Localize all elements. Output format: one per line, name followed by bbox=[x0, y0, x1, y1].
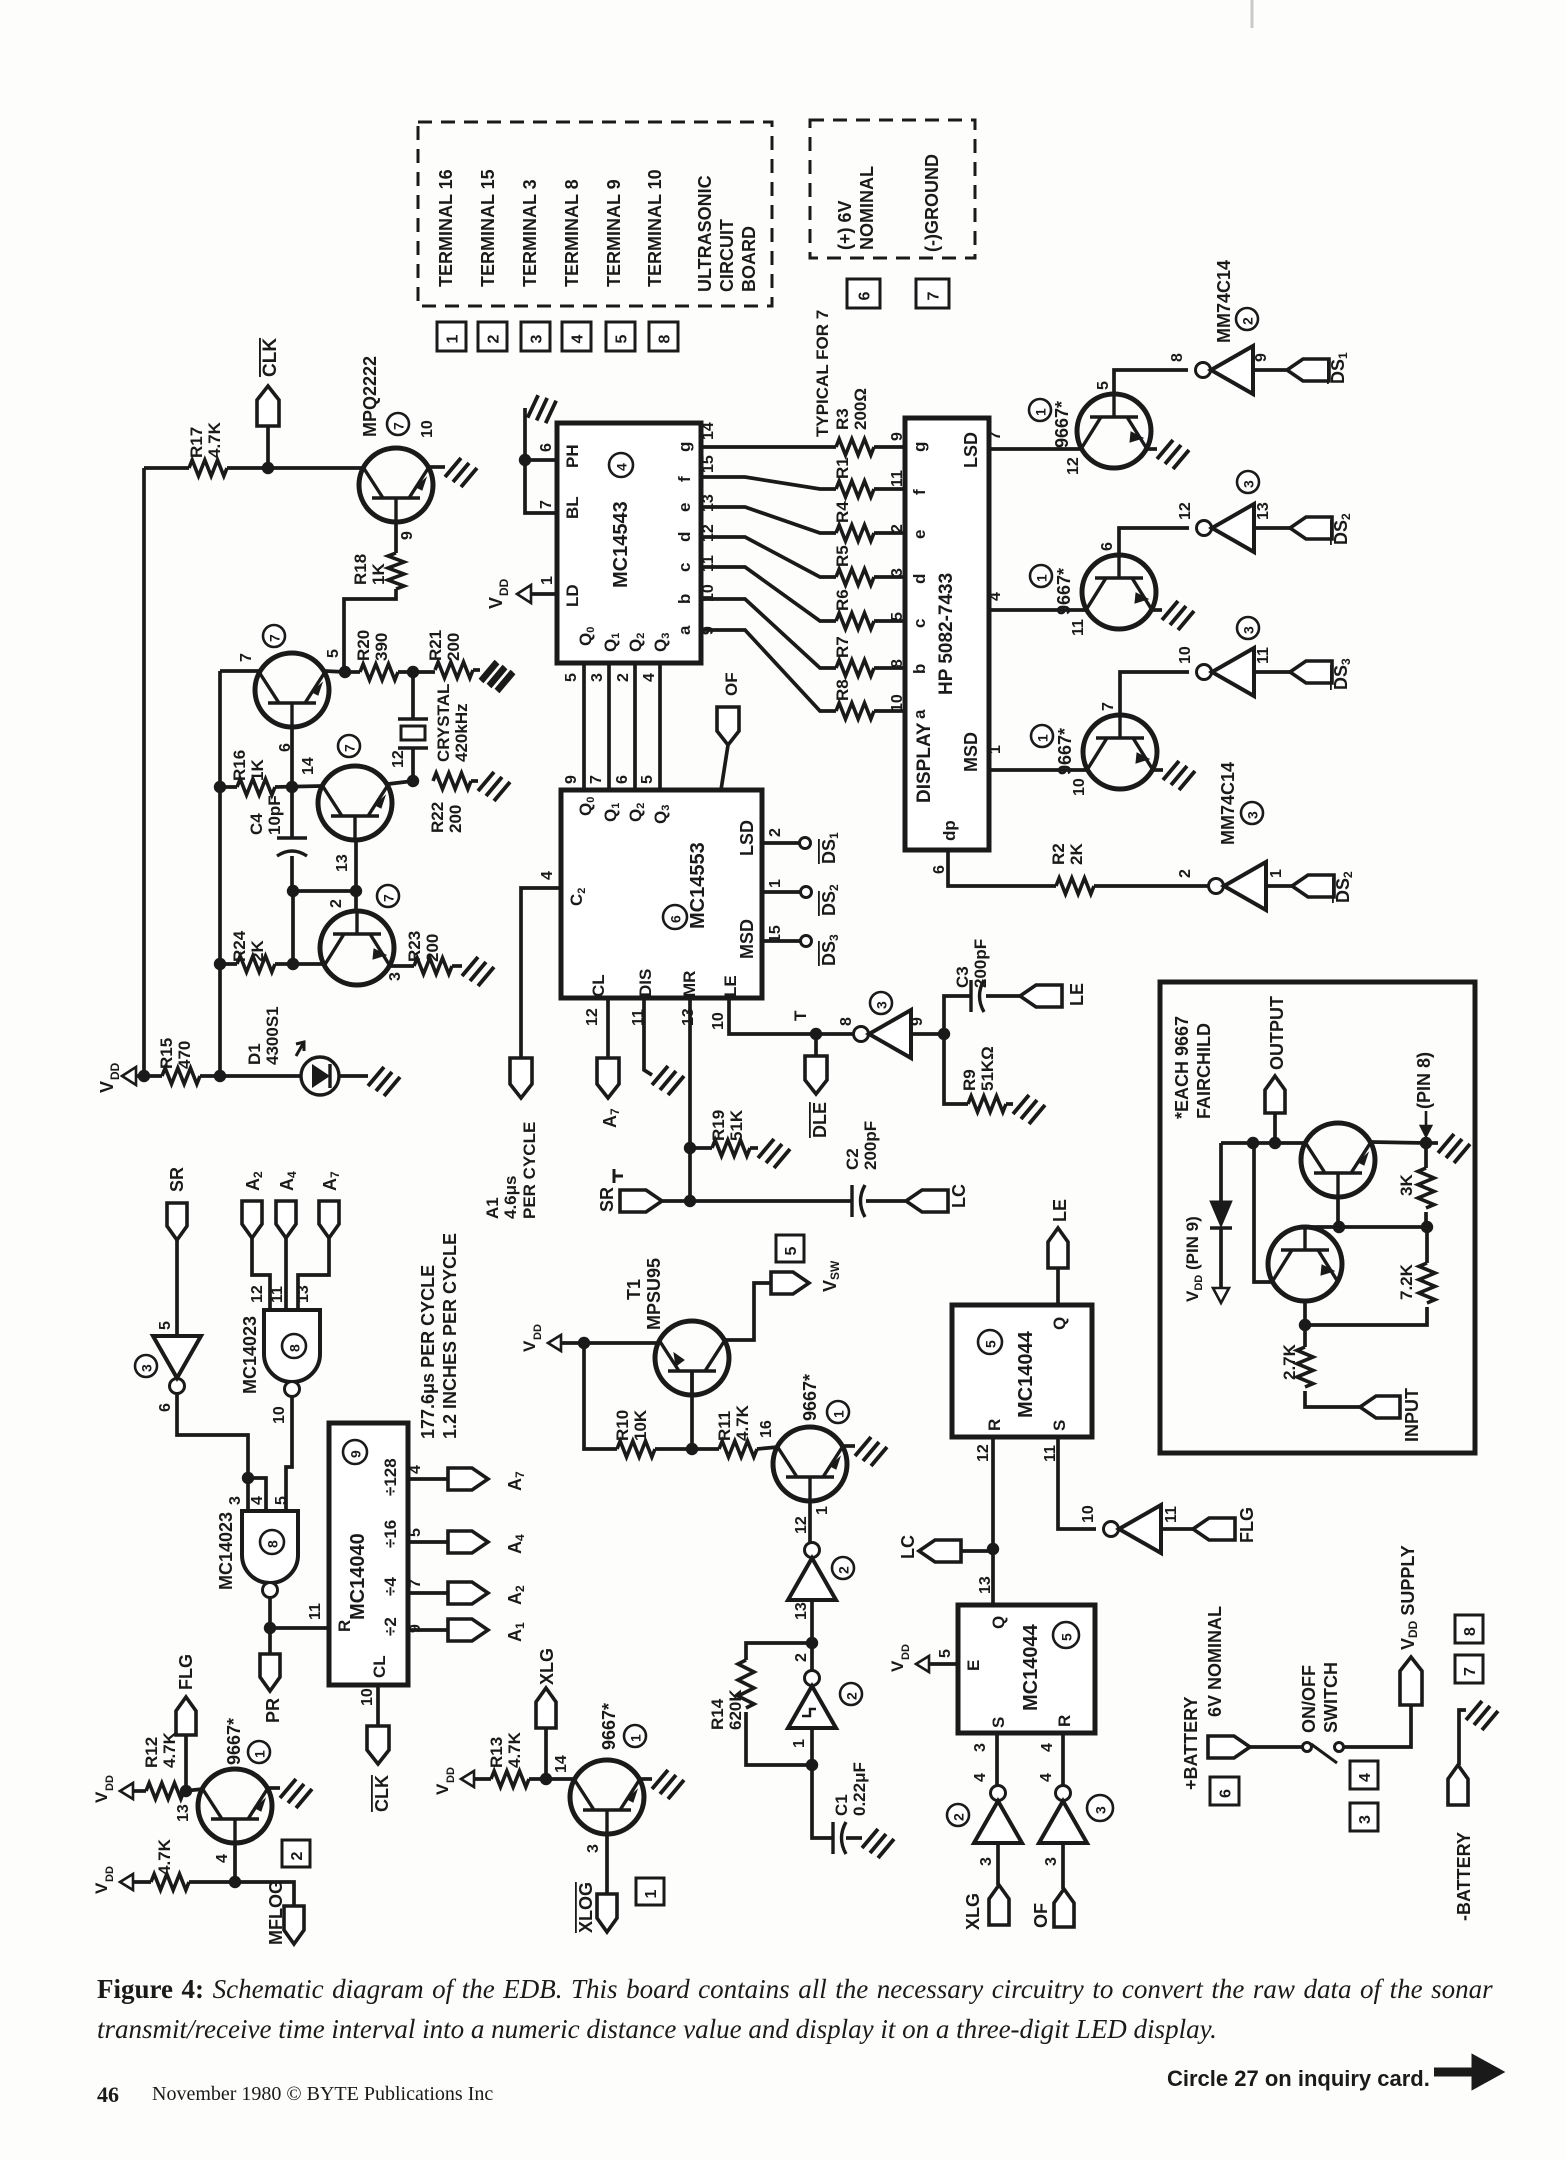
wire MSD4 to Q6 bbox=[989, 608, 1086, 612]
terminal square 4 bbox=[562, 322, 591, 351]
connector +BATTERY bbox=[1208, 1736, 1250, 1758]
svg-text:9667*: 9667* bbox=[1054, 568, 1074, 615]
terminal square 5 bbox=[606, 322, 635, 351]
wire Q9 emitter bbox=[605, 1834, 609, 1894]
inset box 9667 detail bbox=[1160, 982, 1475, 1453]
wire inv to DS2 bbox=[1254, 526, 1290, 530]
svg-text:5: 5 bbox=[889, 612, 906, 621]
terminal square 3 bbox=[521, 322, 550, 351]
svg-text:MM74C14: MM74C14 bbox=[1218, 762, 1238, 845]
svg-text:NOMINAL: NOMINAL bbox=[857, 166, 877, 250]
resistor R16 1K bbox=[237, 779, 275, 795]
svg-text:a: a bbox=[910, 709, 929, 719]
svg-text:11: 11 bbox=[269, 1286, 286, 1303]
wire PH BL loop bbox=[525, 458, 557, 462]
wire R23 to ground bbox=[452, 964, 462, 968]
svg-text:3K: 3K bbox=[1397, 1174, 1416, 1196]
svg-text:5: 5 bbox=[614, 335, 631, 344]
svg-text:LC: LC bbox=[949, 1184, 969, 1208]
svg-text:3: 3 bbox=[529, 335, 546, 344]
svg-text:C1: C1 bbox=[832, 1794, 851, 1816]
svg-text:HP 5082-7433: HP 5082-7433 bbox=[936, 573, 957, 695]
wire Q8 collector ground bbox=[268, 1786, 280, 1790]
svg-text:DD: DD bbox=[104, 1866, 116, 1882]
wire C2 to LC bbox=[866, 1199, 906, 1203]
svg-text:6: 6 bbox=[538, 443, 555, 452]
svg-text:12: 12 bbox=[584, 1008, 601, 1026]
wire inv to FLG bbox=[1161, 1527, 1193, 1531]
transistor inset upper bbox=[1301, 1123, 1375, 1197]
resistor R23 200 bbox=[414, 958, 452, 974]
designator 2 invXLG bbox=[947, 1804, 969, 1826]
svg-text:8: 8 bbox=[838, 1017, 855, 1026]
svg-text:8: 8 bbox=[265, 1540, 281, 1548]
wire pin8 ground bbox=[1426, 1141, 1438, 1145]
svg-text:2: 2 bbox=[793, 1653, 810, 1662]
designator 2 invA bbox=[832, 1557, 854, 1579]
node inset output bbox=[1269, 1137, 1281, 1149]
svg-text:CRYSTAL: CRYSTAL bbox=[434, 684, 453, 762]
svg-text:1: 1 bbox=[539, 576, 556, 585]
terminal square 7 bbox=[1455, 1655, 1483, 1683]
wire FLG down bbox=[184, 1735, 188, 1791]
resistor R9 51K bbox=[968, 1096, 1006, 1112]
svg-text:470: 470 bbox=[175, 1041, 194, 1069]
svg-text:C4: C4 bbox=[247, 813, 266, 835]
wire inset mid rail bbox=[1305, 1225, 1427, 1229]
svg-text:R18: R18 bbox=[351, 554, 370, 585]
transistor Q5 9667 bbox=[1077, 394, 1151, 468]
connector INPUT bbox=[1360, 1396, 1400, 1418]
svg-text:e: e bbox=[675, 503, 694, 512]
svg-text:14: 14 bbox=[700, 422, 717, 440]
svg-text:A2: A2 bbox=[505, 1585, 527, 1605]
connector VDD SUPPLY bbox=[1400, 1657, 1422, 1705]
svg-text:13: 13 bbox=[793, 1602, 810, 1620]
inverter U3 SR bbox=[170, 1379, 185, 1394]
node rail R16 bbox=[214, 781, 226, 793]
svg-text:13: 13 bbox=[334, 854, 351, 872]
svg-text:12: 12 bbox=[975, 1444, 992, 1462]
wire gate1 out bbox=[286, 1397, 292, 1511]
ground inset bbox=[1438, 1134, 1470, 1163]
svg-text:7: 7 bbox=[926, 292, 943, 301]
wire R9 ground bbox=[1006, 1102, 1013, 1106]
svg-text:R4: R4 bbox=[833, 501, 852, 523]
svg-text:FLG: FLG bbox=[176, 1654, 196, 1690]
transistor Q10 9667 bbox=[773, 1427, 847, 1501]
svg-text:1: 1 bbox=[1034, 574, 1050, 582]
svg-text:4.7K: 4.7K bbox=[733, 1404, 752, 1441]
svg-text:b: b bbox=[675, 594, 694, 604]
svg-text:10: 10 bbox=[419, 420, 436, 438]
svg-text:12: 12 bbox=[1065, 457, 1082, 475]
svg-text:9: 9 bbox=[348, 1450, 364, 1458]
svg-text:MC14543: MC14543 bbox=[610, 501, 632, 588]
svg-text:DS1: DS1 bbox=[819, 832, 841, 864]
svg-text:DD: DD bbox=[497, 578, 511, 596]
svg-text:1: 1 bbox=[252, 1750, 268, 1758]
wire/resistor R3 segment g bbox=[701, 445, 836, 449]
svg-text:12: 12 bbox=[390, 750, 407, 768]
svg-text:6: 6 bbox=[668, 915, 684, 923]
svg-text:7: 7 bbox=[407, 1579, 424, 1588]
terminal square 4 bbox=[1350, 1761, 1378, 1789]
svg-text:÷2: ÷2 bbox=[381, 1617, 400, 1636]
svg-text:ULTRASONIC: ULTRASONIC bbox=[695, 175, 715, 292]
svg-text:c: c bbox=[675, 563, 694, 572]
wire LE down bbox=[729, 998, 816, 1034]
svg-text:10: 10 bbox=[1071, 778, 1088, 796]
ground R9 bbox=[1013, 1095, 1045, 1124]
svg-text:A7: A7 bbox=[505, 1471, 527, 1491]
terminal square 8 bbox=[649, 322, 678, 351]
svg-text:(-)GROUND: (-)GROUND bbox=[922, 154, 942, 252]
wire CL to A7 bbox=[606, 998, 610, 1058]
svg-text:TERMINAL 8: TERMINAL 8 bbox=[562, 179, 582, 287]
svg-text:7: 7 bbox=[342, 744, 358, 752]
ground R23 bbox=[462, 957, 494, 986]
wire Q4 emitter to R23 bbox=[390, 964, 414, 968]
svg-text:13: 13 bbox=[1255, 502, 1272, 520]
connector -BATTERY bbox=[1448, 1765, 1468, 1805]
svg-text:9667*: 9667* bbox=[1052, 401, 1072, 448]
wire VDD to E bbox=[929, 1662, 958, 1666]
svg-text:2: 2 bbox=[844, 1692, 860, 1700]
wire R10 to node bbox=[655, 1447, 719, 1451]
svg-text:6: 6 bbox=[857, 292, 874, 301]
svg-text:S: S bbox=[1050, 1420, 1069, 1431]
svg-text:LE: LE bbox=[721, 975, 740, 997]
resistor R14 620K bbox=[738, 1660, 754, 1708]
svg-text:C3: C3 bbox=[953, 966, 972, 988]
svg-text:2: 2 bbox=[767, 828, 784, 837]
label bar T bbox=[614, 1169, 623, 1183]
wire rail to Q2 base bbox=[220, 669, 259, 673]
svg-text:R3: R3 bbox=[833, 408, 852, 430]
svg-text:4: 4 bbox=[972, 1773, 989, 1782]
svg-text:11: 11 bbox=[1163, 1506, 1180, 1523]
wire base rail down bbox=[584, 1343, 617, 1449]
wire C1 ground bbox=[846, 1836, 862, 1840]
svg-text:XLG: XLG bbox=[537, 1648, 557, 1685]
svg-text:16: 16 bbox=[758, 1420, 775, 1438]
wire DS3 stub bbox=[762, 939, 800, 943]
svg-text:1: 1 bbox=[987, 745, 1004, 754]
svg-text:2: 2 bbox=[951, 1813, 967, 1821]
svg-text:R7: R7 bbox=[833, 636, 852, 658]
designator 4 bbox=[609, 453, 633, 477]
IC U4 MC14543 bbox=[557, 423, 701, 663]
svg-text:CL: CL bbox=[589, 974, 608, 997]
wire R12 to Q8 bbox=[184, 1789, 203, 1791]
svg-text:V: V bbox=[888, 1660, 907, 1672]
svg-text:DD: DD bbox=[900, 1644, 912, 1660]
svg-text:4: 4 bbox=[1039, 1743, 1056, 1752]
svg-text:9: 9 bbox=[889, 432, 906, 441]
designator 1 Q6 bbox=[1030, 565, 1052, 587]
wire R2 to inv bbox=[1094, 884, 1208, 888]
svg-text:1: 1 bbox=[445, 335, 462, 344]
wire node to Q3 collector bbox=[388, 781, 413, 784]
svg-text:DS3: DS3 bbox=[819, 934, 841, 966]
wire 7.2K to emitter row bbox=[1305, 1307, 1427, 1325]
svg-text:12: 12 bbox=[249, 1285, 266, 1303]
ground R22 bbox=[478, 772, 510, 801]
terminal square 2 bbox=[478, 322, 507, 351]
wire LE down to Q bbox=[1056, 1268, 1060, 1305]
svg-text:VSW: VSW bbox=[820, 1260, 842, 1292]
wire D1 to ground bbox=[339, 1074, 368, 1078]
svg-text:200: 200 bbox=[446, 805, 465, 833]
wire inv to gate2 bbox=[177, 1394, 248, 1511]
svg-text:V: V bbox=[486, 597, 506, 609]
diode D1 4300S1 bbox=[301, 1057, 339, 1095]
designator 8 lower bbox=[260, 1530, 284, 1554]
svg-text:5: 5 bbox=[563, 673, 580, 682]
svg-text:ON/OFF: ON/OFF bbox=[1299, 1665, 1319, 1733]
wire Q2 collector to R20 bbox=[325, 671, 345, 672]
svg-text:TERMINAL 3: TERMINAL 3 bbox=[520, 179, 540, 287]
inverter U2 XLG bbox=[991, 1786, 1006, 1801]
wire R11 to Q10 bbox=[757, 1447, 778, 1449]
svg-text:4: 4 bbox=[570, 335, 587, 344]
svg-text:MC14023: MC14023 bbox=[240, 1316, 260, 1394]
capacitor C3 200pF bbox=[969, 980, 972, 1012]
svg-text:V: V bbox=[92, 1791, 111, 1803]
svg-text:DS2: DS2 bbox=[1333, 871, 1355, 903]
svg-text:6: 6 bbox=[931, 865, 948, 874]
svg-text:DD: DD bbox=[532, 1324, 544, 1340]
resistor R24 2K bbox=[237, 956, 275, 972]
svg-text:1: 1 bbox=[1033, 408, 1049, 416]
capacitor C4 10pF bbox=[290, 787, 294, 838]
wire Q6 emitter ground bbox=[1152, 608, 1162, 612]
wire gate2 in2 bbox=[248, 1478, 266, 1511]
svg-text:11: 11 bbox=[1070, 619, 1087, 636]
wire R19 link bbox=[690, 1146, 712, 1150]
svg-text:1: 1 bbox=[1268, 869, 1285, 878]
svg-text:R23: R23 bbox=[405, 931, 424, 962]
diode inset bbox=[1219, 1143, 1223, 1201]
svg-text:2K: 2K bbox=[1067, 843, 1086, 865]
wire to R24 node bbox=[291, 891, 295, 964]
svg-text:MPSU95: MPSU95 bbox=[644, 1258, 664, 1330]
svg-text:2: 2 bbox=[328, 899, 345, 908]
designator 1 Q10 bbox=[827, 1401, 849, 1423]
svg-text:LSD: LSD bbox=[961, 432, 981, 468]
svg-text:D1: D1 bbox=[245, 1043, 264, 1065]
svg-text:transmit/receive time interval: transmit/receive time interval into a nu… bbox=[97, 2014, 1217, 2044]
wire/resistor R4 segment e bbox=[701, 507, 836, 533]
wire MSD1 to Q7 bbox=[989, 768, 1087, 772]
wire R20 to R21 bbox=[344, 670, 360, 674]
wire inset upper emitter bbox=[1336, 1197, 1340, 1227]
svg-text:13: 13 bbox=[175, 1804, 192, 1822]
svg-text:MFLOG: MFLOG bbox=[266, 1880, 286, 1945]
node Q2 collector bbox=[339, 666, 351, 678]
inverter U3 DS3 bbox=[1197, 665, 1212, 680]
svg-text:DISPLAY: DISPLAY bbox=[914, 722, 935, 803]
wire MR down bbox=[688, 998, 692, 1201]
ground Q1 bbox=[445, 458, 477, 487]
wire Q4 base stem bbox=[354, 891, 358, 911]
svg-text:TERMINAL 16: TERMINAL 16 bbox=[436, 169, 456, 287]
svg-text:200: 200 bbox=[423, 934, 442, 962]
svg-text:MPQ2222: MPQ2222 bbox=[360, 356, 380, 437]
connector DS2 bbox=[1290, 517, 1332, 539]
svg-text:Q: Q bbox=[989, 1616, 1008, 1629]
svg-text:÷4: ÷4 bbox=[381, 1577, 400, 1596]
connector DS3 bbox=[1290, 661, 1332, 683]
ground Q7 bbox=[1163, 761, 1195, 790]
svg-text:6V NOMINAL: 6V NOMINAL bbox=[1205, 1606, 1225, 1717]
svg-text:5: 5 bbox=[783, 1247, 800, 1256]
wire node to crystal bbox=[411, 672, 415, 719]
svg-text:5: 5 bbox=[157, 1321, 174, 1330]
power dashed box bbox=[810, 120, 975, 258]
wire/resistor R8 segment a bbox=[701, 630, 836, 711]
svg-text:MC14023: MC14023 bbox=[216, 1512, 236, 1590]
wire crystal to R22 node bbox=[411, 748, 415, 781]
node R22 bbox=[407, 775, 419, 787]
terminal square 5 VSW bbox=[776, 1235, 804, 1262]
wire rail to R24 bbox=[220, 962, 237, 966]
IC U6 MC14553 bbox=[561, 790, 762, 998]
svg-text:51K: 51K bbox=[727, 1109, 746, 1141]
wire inset lower collector bbox=[1303, 1225, 1307, 1229]
node rail R24 bbox=[214, 958, 226, 970]
transistor T1 MPSU95 bbox=[655, 1321, 729, 1395]
node MR R19 bbox=[684, 1142, 696, 1154]
svg-text:8: 8 bbox=[889, 659, 906, 668]
wire VDD to R15 bbox=[136, 1074, 162, 1078]
wire inv to OF bbox=[1061, 1843, 1065, 1889]
svg-text:12: 12 bbox=[793, 1516, 810, 1534]
svg-text:9: 9 bbox=[1253, 353, 1270, 362]
svg-text:MR: MR bbox=[680, 971, 699, 997]
svg-text:V: V bbox=[433, 1783, 452, 1795]
IC U9 MC14040 bbox=[329, 1423, 408, 1685]
wire R to inv OF bbox=[1061, 1733, 1065, 1785]
connector DS1 bbox=[1287, 359, 1329, 381]
designator 1 Q5 bbox=[1029, 399, 1051, 421]
svg-text:9: 9 bbox=[909, 1017, 926, 1026]
resistor R17 4.7K bbox=[144, 466, 189, 470]
transistor Q6 9667 bbox=[1082, 555, 1156, 629]
svg-text:7: 7 bbox=[1462, 1667, 1479, 1676]
wire rail to R16 bbox=[220, 785, 237, 789]
svg-text:FAIRCHILD: FAIRCHILD bbox=[1194, 1023, 1214, 1119]
svg-text:b: b bbox=[910, 664, 929, 674]
svg-text:3: 3 bbox=[889, 568, 906, 577]
node T1 emitter R10 bbox=[686, 1443, 698, 1455]
svg-text:4: 4 bbox=[641, 673, 658, 682]
svg-text:3: 3 bbox=[1241, 480, 1257, 488]
wire lower emitter down bbox=[1303, 1301, 1307, 1347]
svg-text:R16: R16 bbox=[230, 750, 249, 781]
svg-text:11: 11 bbox=[307, 1603, 324, 1620]
svg-text:4.7K: 4.7K bbox=[205, 421, 224, 458]
wire R22 to ground bbox=[471, 779, 478, 783]
svg-text:6: 6 bbox=[157, 1403, 174, 1412]
wire SR down bbox=[175, 1240, 179, 1337]
svg-text:3: 3 bbox=[1357, 1815, 1374, 1824]
svg-text:10: 10 bbox=[710, 1012, 727, 1030]
svg-text:3: 3 bbox=[1043, 1857, 1060, 1866]
svg-text:1: 1 bbox=[1035, 734, 1051, 742]
inverter U3 DS2 bbox=[1197, 521, 1212, 536]
svg-text:10: 10 bbox=[889, 694, 906, 712]
node R24 bbox=[287, 958, 299, 970]
wire to ground up bbox=[523, 408, 527, 460]
resistor R11 4.7K bbox=[719, 1441, 757, 1457]
IC U5 MC14044 upper bbox=[952, 1305, 1092, 1437]
wire S to inv XLG bbox=[995, 1733, 999, 1785]
node Q2 emitter R16 bbox=[286, 781, 298, 793]
svg-text:8: 8 bbox=[1169, 353, 1186, 362]
svg-text:Q: Q bbox=[1050, 1317, 1069, 1330]
connector A1 cycle bbox=[510, 1058, 532, 1098]
designator 3 SR inv bbox=[135, 1355, 157, 1377]
connector XLOG bbox=[597, 1894, 617, 1932]
svg-text:10: 10 bbox=[271, 1406, 288, 1424]
svg-text:DS3: DS3 bbox=[1331, 658, 1353, 690]
ground Q5 bbox=[1157, 440, 1189, 469]
designator 2 invB bbox=[840, 1683, 862, 1705]
svg-text:R19: R19 bbox=[709, 1110, 728, 1141]
svg-text:(PIN 8): (PIN 8) bbox=[1414, 1052, 1434, 1109]
svg-text:R1: R1 bbox=[833, 457, 852, 479]
svg-text:5: 5 bbox=[937, 1649, 954, 1658]
svg-text:11: 11 bbox=[889, 470, 906, 487]
node LC bbox=[987, 1543, 999, 1555]
connector LC row bbox=[906, 1190, 948, 1212]
wire Q1 emitter bbox=[394, 522, 398, 553]
svg-text:TERMINAL 9: TERMINAL 9 bbox=[604, 179, 624, 287]
wire C3 to LE conn bbox=[986, 994, 1020, 998]
node XLG R13 bbox=[540, 1773, 552, 1785]
svg-text:2: 2 bbox=[615, 673, 632, 682]
wire Q5 emitter ground bbox=[1147, 447, 1157, 451]
svg-text:3: 3 bbox=[874, 1001, 890, 1009]
wire inv to DS3 bbox=[1254, 670, 1290, 674]
terminal square 8 bbox=[1455, 1615, 1483, 1643]
svg-text:9: 9 bbox=[399, 531, 416, 540]
svg-text:10K: 10K bbox=[631, 1409, 650, 1441]
svg-text:Figure 4: Schematic diagram of: Figure 4: Schematic diagram of the EDB. … bbox=[97, 1974, 1493, 2004]
wire OUTPUT stem bbox=[1273, 1113, 1277, 1143]
wire gate2 out bbox=[268, 1598, 272, 1654]
wire invA to invB bbox=[810, 1600, 814, 1671]
svg-text:R5: R5 bbox=[833, 545, 852, 567]
wire LSD to Q5 bbox=[989, 447, 1081, 451]
connector DLE bbox=[805, 1056, 827, 1094]
wire inset collector bbox=[1371, 1142, 1426, 1143]
svg-text:4300S1: 4300S1 bbox=[263, 1006, 282, 1065]
wire inv to C3 node bbox=[911, 1032, 944, 1036]
svg-text:8: 8 bbox=[287, 1344, 303, 1352]
node gate2 in bbox=[242, 1472, 254, 1484]
svg-text:÷128: ÷128 bbox=[381, 1458, 400, 1496]
svg-text:4: 4 bbox=[614, 463, 630, 471]
svg-text:3: 3 bbox=[972, 1743, 989, 1752]
svg-text:11: 11 bbox=[700, 555, 717, 572]
svg-text:a: a bbox=[675, 625, 694, 635]
svg-text:4: 4 bbox=[407, 1465, 424, 1474]
terminal square 1 bbox=[437, 322, 466, 351]
svg-text:3: 3 bbox=[1093, 1806, 1109, 1814]
